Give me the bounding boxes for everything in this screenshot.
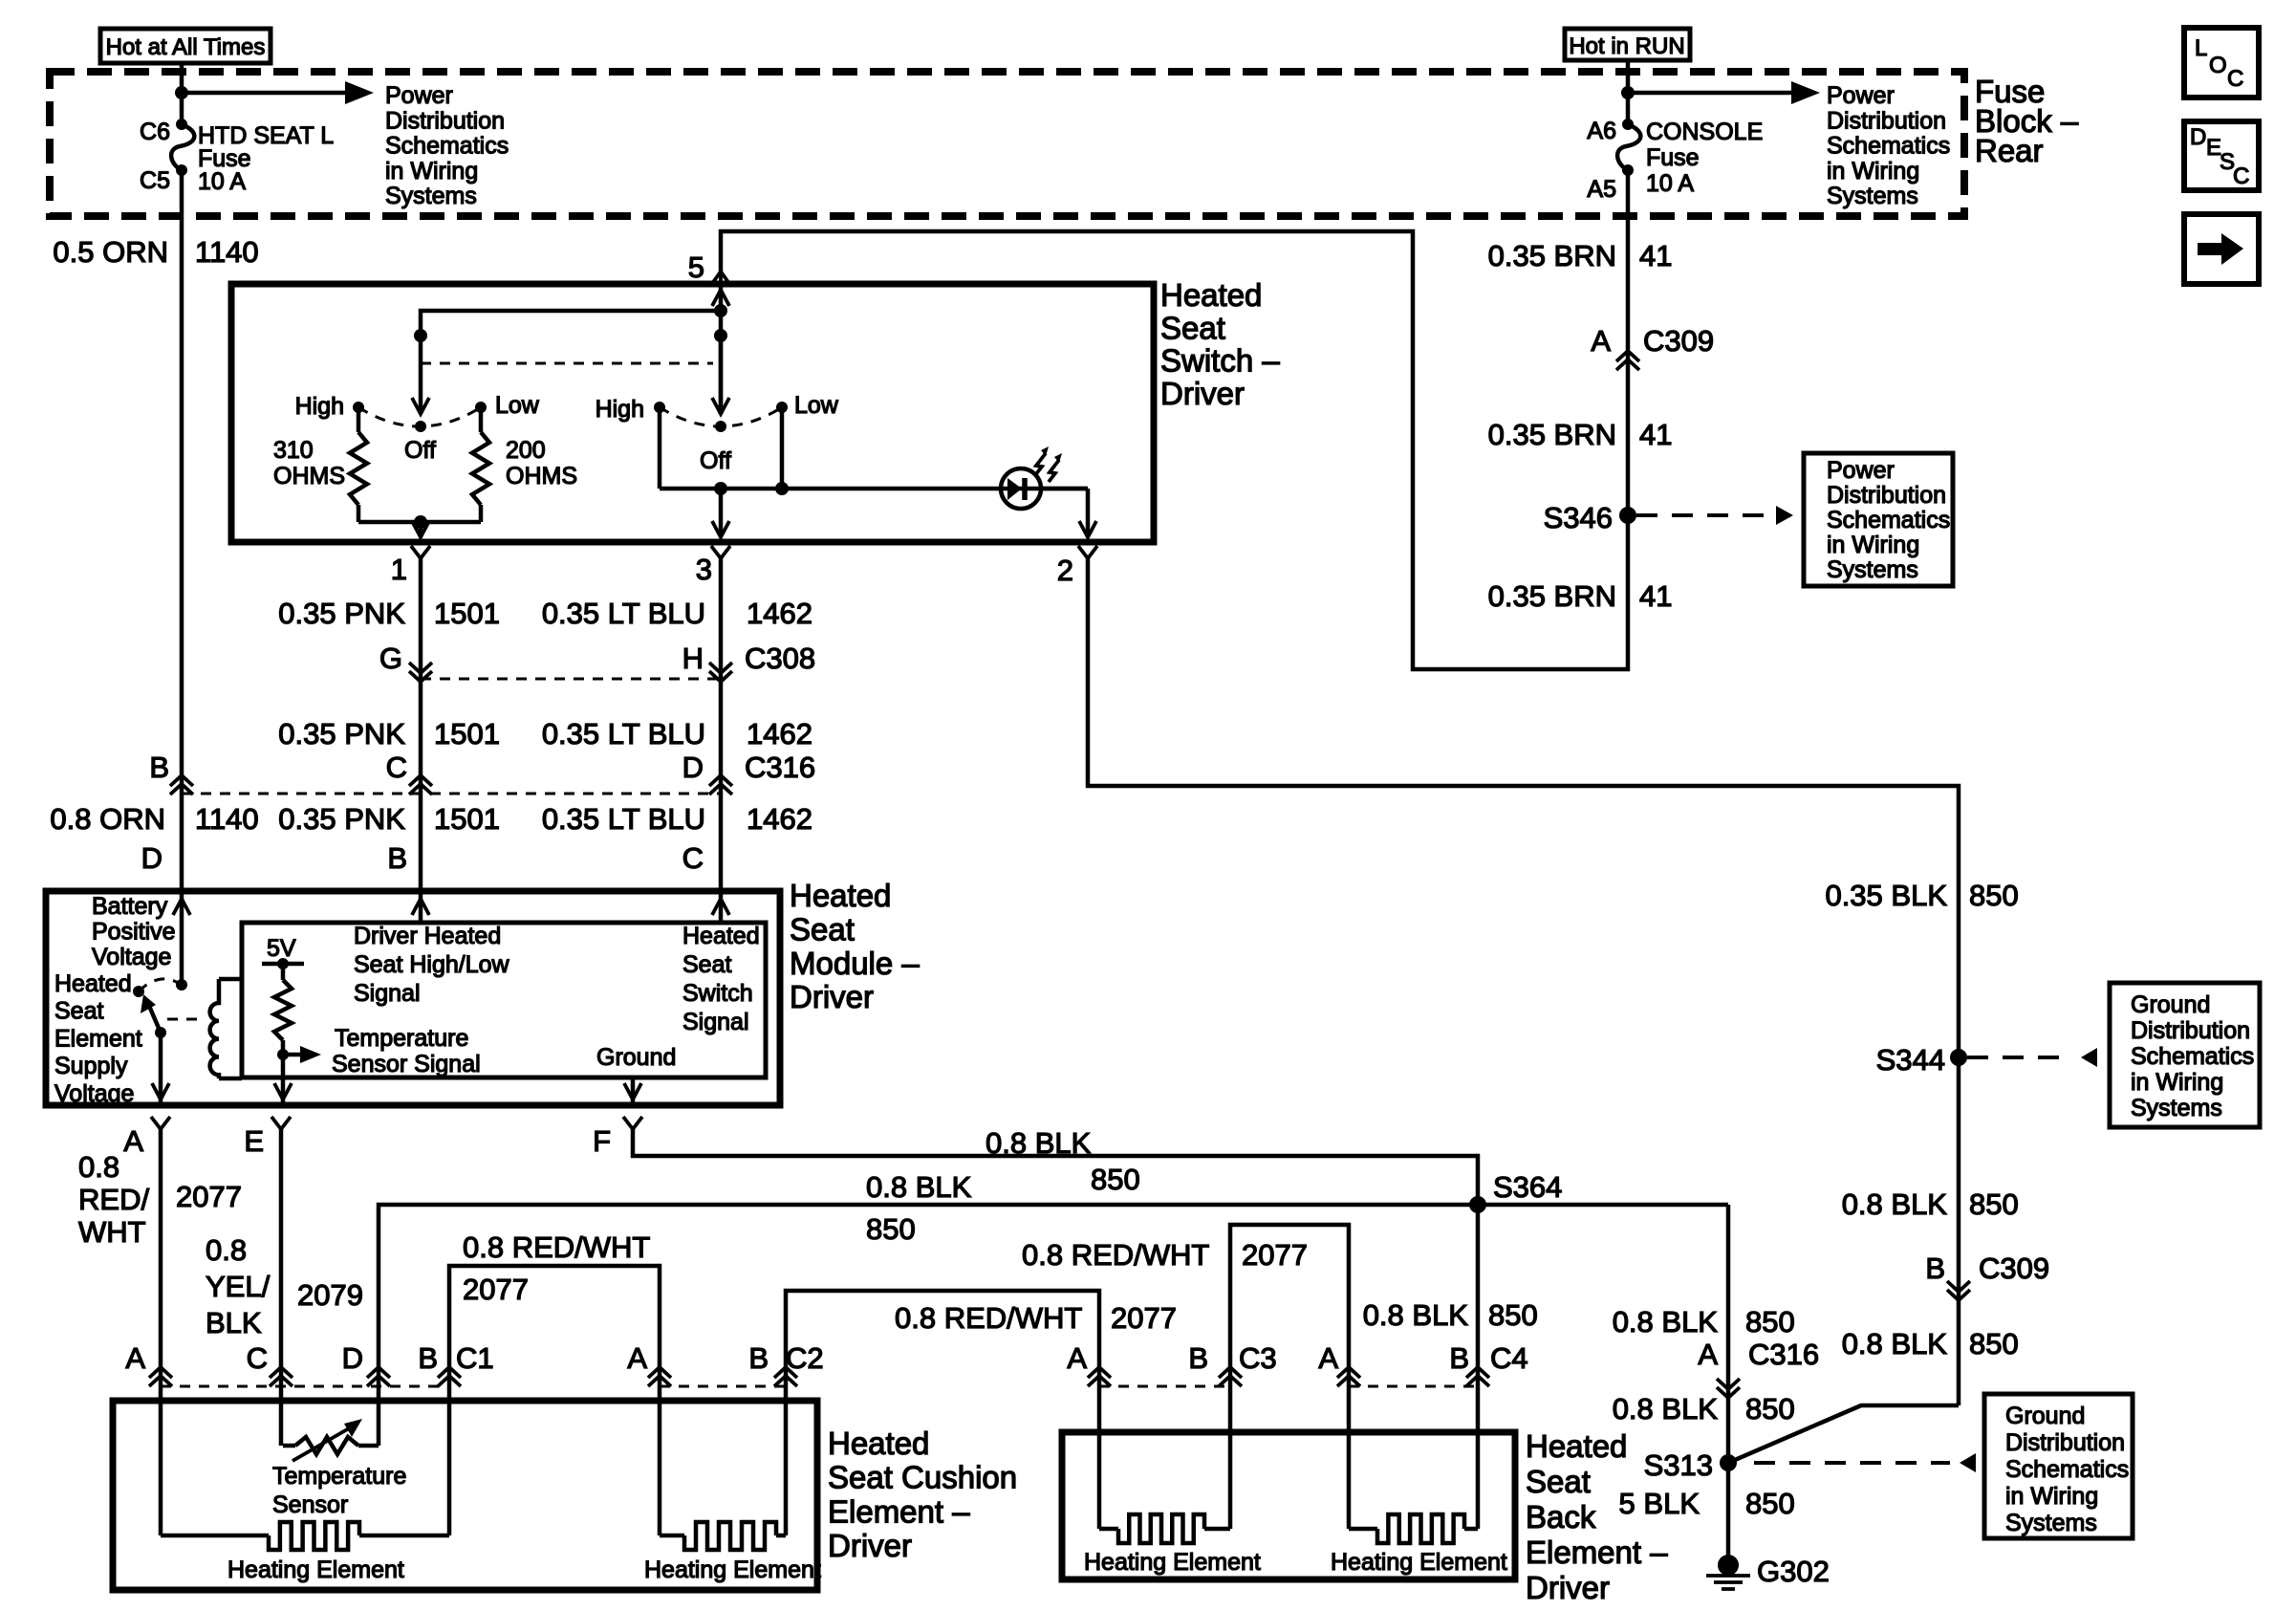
svg-text:Back: Back — [1526, 1499, 1596, 1535]
wire: 5 BLK 850 from S313 to ground G302 — [1726, 1463, 1731, 1558]
svg-text:Heating Element: Heating Element — [644, 1557, 821, 1583]
svg-text:Schematics: Schematics — [1827, 507, 1950, 533]
svg-text:C: C — [386, 751, 407, 784]
svg-text:Distribution: Distribution — [2131, 1017, 2250, 1044]
svg-text:Seat High/Low: Seat High/Low — [354, 951, 510, 978]
node S364: ground splice — [1469, 1196, 1486, 1213]
svg-text:10 A: 10 A — [198, 168, 246, 195]
svg-text:B: B — [418, 1341, 438, 1375]
node: Hot at All Times label box — [100, 29, 271, 63]
svg-text:41: 41 — [1639, 579, 1672, 613]
svg-text:D: D — [342, 1341, 363, 1375]
svg-text:3: 3 — [696, 553, 712, 586]
wire: 0.35 BLK 850 from switch pin 2 across to right ground wire — [1088, 558, 1959, 1057]
svg-text:A: A — [1318, 1341, 1338, 1375]
svg-text:2077: 2077 — [463, 1273, 529, 1306]
svg-text:Heating Element: Heating Element — [1331, 1549, 1507, 1576]
svg-text:2077: 2077 — [1111, 1301, 1177, 1335]
svg-text:Supply: Supply — [54, 1053, 128, 1079]
svg-text:Driver: Driver — [1160, 376, 1245, 411]
svg-text:0.35 LT BLU: 0.35 LT BLU — [542, 802, 705, 836]
wire: 0.8 BLK 850 from S344 to C309 pin B — [1957, 1057, 1961, 1405]
heating element 4 (back right) — [1347, 1432, 1352, 1529]
legend: forward arrow box — [2184, 214, 2259, 284]
svg-text:L: L — [2195, 35, 2207, 61]
svg-text:0.8 RED/WHT: 0.8 RED/WHT — [1022, 1238, 1209, 1272]
connector: switch pin 3 — [711, 546, 730, 558]
svg-text:0.8 BLK: 0.8 BLK — [1842, 1187, 1948, 1221]
svg-text:310: 310 — [273, 437, 314, 464]
svg-text:5: 5 — [688, 250, 704, 284]
dashed arc between relay contacts — [139, 979, 182, 991]
svg-text:0.35 BRN: 0.35 BRN — [1488, 239, 1616, 272]
node: right Low contact — [776, 402, 788, 413]
svg-text:Ground: Ground — [2005, 1403, 2085, 1429]
connector: switch pin 2 — [1078, 546, 1097, 558]
svg-text:1462: 1462 — [747, 717, 812, 751]
svg-text:2077: 2077 — [1242, 1238, 1308, 1272]
svg-text:Heating Element: Heating Element — [1084, 1549, 1261, 1576]
svg-text:BLK: BLK — [206, 1306, 262, 1339]
svg-text:B: B — [1449, 1341, 1469, 1375]
svg-text:0.35 LT BLU: 0.35 LT BLU — [542, 717, 705, 751]
svg-text:5 BLK: 5 BLK — [1619, 1487, 1700, 1520]
wire: dashed reference from S313 to Ground Distribution box — [1754, 1461, 1950, 1465]
svg-text:1: 1 — [391, 553, 407, 586]
svg-text:200: 200 — [506, 437, 546, 464]
LED indicator lamp — [1001, 468, 1041, 509]
svg-text:850: 850 — [1488, 1298, 1538, 1332]
svg-text:B: B — [748, 1341, 769, 1375]
svg-text:Ground: Ground — [596, 1044, 676, 1071]
node: right High contact — [654, 402, 665, 413]
svg-text:0.35 BRN: 0.35 BRN — [1488, 579, 1616, 613]
svg-text:0.8 ORN: 0.8 ORN — [50, 802, 165, 836]
node: temperature sensor signal tap — [277, 1049, 289, 1060]
svg-text:S364: S364 — [1493, 1170, 1562, 1204]
svg-text:C1: C1 — [456, 1341, 494, 1375]
svg-text:A: A — [1067, 1341, 1087, 1375]
wire: 0.35 BRN 41 from S346 down and across to switch pin 5 — [721, 231, 1628, 669]
module pin B internal arrow — [419, 891, 423, 923]
svg-text:850: 850 — [1745, 1487, 1795, 1520]
svg-text:in Wiring: in Wiring — [385, 158, 478, 185]
svg-text:Heating Element: Heating Element — [227, 1557, 404, 1583]
svg-text:0.35 PNK: 0.35 PNK — [278, 597, 405, 630]
wire: dashed arc left switch positions — [358, 407, 481, 426]
svg-text:Schematics: Schematics — [1827, 133, 1950, 160]
svg-text:Hot in RUN: Hot in RUN — [1569, 33, 1684, 59]
wire: 0.8 BLK 850 from S364 line down through C316 pin A — [1726, 1205, 1731, 1463]
svg-text:Heated: Heated — [790, 878, 891, 913]
svg-text:A6: A6 — [1587, 118, 1616, 144]
svg-text:Distribution: Distribution — [1827, 482, 1946, 509]
component: Heated Seat Cushion Element - Driver box — [113, 1401, 817, 1590]
node: Power Distribution Schematics reference box (S346) — [1804, 453, 1953, 586]
svg-text:C4: C4 — [1490, 1341, 1528, 1375]
svg-text:850: 850 — [866, 1212, 916, 1246]
node: relay blade pivot dot — [155, 1027, 166, 1038]
svg-text:Low: Low — [495, 392, 540, 419]
svg-text:in Wiring: in Wiring — [1827, 158, 1919, 185]
svg-text:in Wiring: in Wiring — [2131, 1069, 2223, 1096]
svg-text:B: B — [1188, 1341, 1208, 1375]
svg-text:in Wiring: in Wiring — [2005, 1483, 2098, 1510]
connector C316 pin C chevrons — [409, 775, 432, 786]
svg-text:Schematics: Schematics — [2005, 1456, 2129, 1483]
svg-text:Signal: Signal — [354, 980, 421, 1007]
node: junction dot left feed — [175, 86, 188, 99]
svg-text:0.35 BLK: 0.35 BLK — [1825, 879, 1947, 912]
wire: arrow to Power Distribution Schematics reference (left) — [182, 91, 357, 96]
svg-text:0.8: 0.8 — [206, 1233, 247, 1267]
wire: internal jumper to left switch arm — [421, 311, 721, 414]
svg-text:A: A — [627, 1341, 647, 1375]
wire: 0.35 BRN 41 from fuse A5 down to connector C309 pin A — [1626, 170, 1631, 515]
svg-text:10 A: 10 A — [1646, 170, 1694, 197]
fuse F2: CONSOLE Fuse 10 A — [1622, 119, 1634, 130]
svg-text:A5: A5 — [1587, 176, 1616, 203]
svg-text:C316: C316 — [1748, 1338, 1819, 1371]
svg-text:0.5 ORN: 0.5 ORN — [53, 235, 168, 269]
svg-text:G302: G302 — [1757, 1555, 1830, 1588]
svg-text:Off: Off — [404, 437, 436, 464]
svg-text:Ground: Ground — [2131, 991, 2210, 1018]
svg-text:Element –: Element – — [828, 1493, 970, 1529]
component: Heated Seat Module - Driver outer box — [46, 891, 780, 1105]
svg-text:H: H — [682, 642, 704, 675]
module inner control box — [242, 923, 766, 1078]
svg-text:Positive: Positive — [92, 919, 176, 946]
svg-text:0.8 BLK: 0.8 BLK — [1842, 1327, 1948, 1361]
wire: dashed reference from S344 to Ground Distribution box — [1967, 1056, 2072, 1059]
connector C309 pin A chevrons — [1616, 351, 1639, 361]
connector C316 pin D chevrons — [709, 775, 732, 786]
svg-text:Temperature: Temperature — [335, 1025, 468, 1052]
svg-text:B: B — [1925, 1252, 1945, 1285]
wire: 0.8 BLK 850 ground from pin F to S364 — [633, 1129, 1478, 1205]
node: Hot in RUN label box — [1565, 29, 1690, 60]
connector row C1: pins A C D B — [149, 1367, 172, 1378]
svg-text:1462: 1462 — [747, 597, 812, 630]
svg-text:S346: S346 — [1544, 501, 1613, 534]
svg-text:C2: C2 — [786, 1341, 824, 1375]
svg-text:0.8 BLK: 0.8 BLK — [1363, 1298, 1469, 1332]
svg-text:0.8 BLK: 0.8 BLK — [1613, 1305, 1719, 1339]
svg-text:Power: Power — [1827, 82, 1895, 109]
svg-text:1501: 1501 — [434, 717, 500, 751]
svg-text:850: 850 — [1969, 879, 2019, 912]
svg-text:Systems: Systems — [1827, 183, 1918, 209]
legend: DESC box — [2184, 121, 2259, 190]
svg-text:CONSOLE: CONSOLE — [1646, 119, 1763, 145]
svg-text:850: 850 — [1745, 1305, 1795, 1339]
svg-text:Heated: Heated — [828, 1426, 929, 1461]
heating element 3 (back left) — [1097, 1432, 1102, 1529]
svg-text:WHT: WHT — [78, 1215, 146, 1249]
svg-text:C: C — [2233, 163, 2249, 189]
svg-text:Systems: Systems — [1827, 556, 1918, 583]
svg-text:Schematics: Schematics — [2131, 1043, 2254, 1070]
svg-text:E: E — [244, 1124, 264, 1158]
connector C308 pin G chevrons — [409, 671, 432, 682]
svg-text:O: O — [2209, 53, 2227, 78]
svg-text:Heated: Heated — [54, 970, 132, 997]
svg-text:Systems: Systems — [2005, 1510, 2097, 1536]
svg-text:C3: C3 — [1239, 1341, 1277, 1375]
node: left Off contact — [415, 421, 426, 432]
svg-text:Heated: Heated — [1526, 1428, 1627, 1464]
svg-text:A: A — [125, 1341, 145, 1375]
connector row C3: pins A B — [1088, 1367, 1111, 1378]
svg-text:OHMS: OHMS — [273, 463, 345, 490]
svg-text:B: B — [149, 751, 169, 784]
svg-text:High: High — [295, 393, 344, 420]
svg-text:Switch: Switch — [682, 980, 753, 1007]
svg-text:0.8 BLK: 0.8 BLK — [866, 1170, 972, 1204]
wire: LED to pin 2 — [1041, 487, 1088, 491]
svg-text:Seat Cushion: Seat Cushion — [828, 1460, 1017, 1495]
svg-text:0.8: 0.8 — [78, 1150, 119, 1184]
svg-text:in Wiring: in Wiring — [1827, 532, 1919, 558]
svg-text:Driver: Driver — [1526, 1570, 1610, 1605]
svg-text:850: 850 — [1091, 1163, 1140, 1196]
heating element 1 (cushion left) — [159, 1401, 163, 1535]
svg-text:Temperature: Temperature — [272, 1463, 406, 1490]
svg-text:Schematics: Schematics — [385, 133, 509, 160]
svg-text:Systems: Systems — [2131, 1095, 2222, 1121]
ground G302 symbol — [1718, 1555, 1739, 1576]
svg-text:Seat: Seat — [790, 911, 855, 947]
svg-text:Seat: Seat — [682, 951, 731, 978]
connector row C2: pins A B — [648, 1367, 671, 1378]
svg-text:S313: S313 — [1644, 1448, 1713, 1482]
svg-text:YEL/: YEL/ — [206, 1270, 271, 1303]
svg-text:C308: C308 — [745, 642, 815, 675]
node S344: ground splice — [1950, 1049, 1967, 1066]
svg-text:D: D — [141, 841, 162, 875]
svg-text:A: A — [123, 1124, 143, 1158]
connector C308 pin H chevrons — [709, 671, 732, 682]
svg-text:A: A — [1698, 1338, 1718, 1371]
switch arm right: arrow to Off — [719, 336, 724, 414]
svg-text:Signal: Signal — [682, 1009, 749, 1035]
wire: resistor common join to pin 1 — [358, 520, 481, 525]
relay coil — [210, 979, 219, 1078]
svg-text:41: 41 — [1639, 418, 1672, 451]
wire: 0.8 BLK 850 from S364 down to C4-B — [1476, 1205, 1481, 1432]
fuse block - rear dashed boundary box — [50, 72, 1964, 216]
svg-text:850: 850 — [1745, 1392, 1795, 1426]
node: left High contact — [353, 402, 364, 413]
connector C316 dashed mating line — [182, 793, 721, 795]
component: Heated Seat Switch - Driver box — [231, 284, 1154, 542]
wire: module pin A from relay blade — [159, 1033, 163, 1105]
node S313: ground splice — [1720, 1454, 1737, 1471]
svg-text:Element: Element — [54, 1025, 142, 1052]
svg-text:2: 2 — [1057, 554, 1073, 587]
node: left Low contact — [475, 402, 487, 413]
node: relay contact (from pin D) — [176, 979, 187, 991]
wire: 0.8 RED/WHT 2077 link C1-B to C2-A — [449, 1266, 660, 1401]
svg-text:Rear: Rear — [1975, 133, 2044, 168]
svg-text:C: C — [682, 841, 704, 875]
svg-text:Distribution: Distribution — [1827, 107, 1946, 134]
svg-text:C: C — [247, 1341, 268, 1375]
svg-text:0.8 RED/WHT: 0.8 RED/WHT — [895, 1301, 1082, 1335]
node: Ground Distribution Schematics reference box (S313) — [1984, 1394, 2133, 1538]
svg-text:F: F — [593, 1124, 611, 1158]
svg-text:0.8 BLK: 0.8 BLK — [986, 1126, 1092, 1160]
resistor: temperature pull-up — [274, 980, 292, 1040]
wire: dashed reference from S346 to Power Distribution box — [1636, 513, 1776, 517]
wire: 0.8 BLK 850 branch line to C1 pin D and C316 pin A — [379, 1205, 1728, 1401]
svg-text:C316: C316 — [745, 751, 815, 784]
svg-text:Driver: Driver — [790, 979, 874, 1014]
svg-text:Seat: Seat — [1160, 310, 1225, 345]
svg-text:Fuse: Fuse — [1646, 144, 1700, 171]
wire: 0.8 RED/WHT 2077 link C3-B to C4-A — [1230, 1225, 1349, 1432]
svg-text:0.35 LT BLU: 0.35 LT BLU — [542, 597, 705, 630]
legend: LOC box — [2184, 28, 2259, 98]
svg-text:Power: Power — [385, 82, 453, 109]
svg-text:Distribution: Distribution — [385, 107, 505, 134]
svg-text:Systems: Systems — [385, 183, 477, 209]
svg-text:0.35 PNK: 0.35 PNK — [278, 802, 405, 836]
svg-text:Heated: Heated — [1160, 277, 1262, 313]
svg-text:Sensor Signal: Sensor Signal — [332, 1051, 481, 1078]
fuse F1: HTD SEAT L Fuse 10 A — [176, 119, 187, 130]
svg-text:Sensor: Sensor — [272, 1491, 348, 1518]
svg-text:2077: 2077 — [176, 1180, 242, 1213]
svg-text:Power: Power — [1827, 457, 1895, 484]
resistor 200 OHMS — [479, 407, 484, 432]
svg-text:Voltage: Voltage — [54, 1080, 134, 1107]
wire: module pin E drop — [281, 1055, 286, 1105]
svg-text:OHMS: OHMS — [506, 463, 577, 490]
svg-text:C309: C309 — [1979, 1252, 2049, 1285]
svg-text:5V: 5V — [267, 935, 296, 962]
node: relay common contact — [133, 986, 144, 997]
svg-text:C5: C5 — [140, 167, 170, 194]
svg-text:D: D — [2190, 124, 2206, 150]
module pin C internal arrow — [719, 891, 724, 923]
svg-text:1140: 1140 — [195, 802, 259, 836]
svg-text:41: 41 — [1639, 239, 1672, 272]
svg-text:0.35 BRN: 0.35 BRN — [1488, 418, 1616, 451]
connector C308 dashed mating line — [421, 678, 721, 681]
connector: switch pin 1 — [411, 546, 430, 558]
relay blade arrow — [149, 1006, 161, 1033]
svg-text:Voltage: Voltage — [92, 944, 171, 970]
svg-text:High: High — [596, 396, 644, 423]
svg-text:Hot at All Times: Hot at All Times — [106, 34, 266, 60]
module pin D internal: battery positive voltage feed — [180, 891, 184, 985]
svg-text:0.8 BLK: 0.8 BLK — [1613, 1392, 1719, 1426]
wire: 0.8 RED/WHT 2077 link C2-B to C3-A — [786, 1291, 1099, 1432]
svg-text:2079: 2079 — [297, 1278, 363, 1312]
svg-text:Element –: Element – — [1526, 1535, 1668, 1570]
svg-text:1140: 1140 — [195, 235, 259, 269]
wire: pin 5 internal feed with junction dots — [719, 284, 724, 414]
svg-text:Driver Heated: Driver Heated — [354, 923, 501, 949]
heating element 2 (cushion right) — [658, 1401, 662, 1535]
svg-text:Seat: Seat — [54, 998, 103, 1025]
svg-text:B: B — [387, 841, 407, 875]
temperature sensor (variable resistor) in cushion — [279, 1401, 284, 1446]
svg-text:Module –: Module – — [790, 946, 920, 981]
svg-text:RED/: RED/ — [78, 1183, 149, 1216]
svg-text:S344: S344 — [1876, 1043, 1945, 1077]
node: junction dot right feed — [1621, 86, 1635, 99]
svg-text:1501: 1501 — [434, 802, 500, 836]
wire: dashed arc right switch positions — [660, 407, 782, 426]
svg-text:Heated: Heated — [682, 923, 760, 949]
svg-text:850: 850 — [1969, 1327, 2019, 1361]
connector row C4: pins A B — [1337, 1367, 1360, 1378]
node: Ground Distribution Schematics reference box (S344) — [2110, 983, 2260, 1127]
wire: 0.5 ORN 1140 from fuse C5 down to module pin D — [180, 170, 184, 891]
svg-text:C: C — [2227, 66, 2243, 92]
svg-text:Driver: Driver — [828, 1528, 912, 1563]
wire: right switch common bus to LED — [658, 407, 662, 489]
wire: left feed from Hot at All Times into fuse block — [180, 63, 184, 124]
svg-text:Off: Off — [700, 447, 731, 474]
svg-text:0.35 PNK: 0.35 PNK — [278, 717, 405, 751]
node: right Off contact — [715, 421, 726, 432]
switch arm left: arrow to Off — [412, 398, 429, 414]
connector: module pin E — [271, 1117, 291, 1129]
svg-text:C309: C309 — [1643, 324, 1714, 358]
svg-text:C6: C6 — [140, 119, 170, 145]
connector: module pin A — [151, 1117, 170, 1129]
connector: module pin F — [623, 1117, 642, 1129]
wire: right feed from Hot in RUN into fuse block — [1626, 60, 1631, 124]
wire: arrow to Power Distribution Schematics reference (right) — [1628, 91, 1804, 96]
svg-text:1462: 1462 — [747, 802, 812, 836]
svg-text:Switch –: Switch – — [1160, 343, 1280, 379]
component: Heated Seat Back Element - Driver box — [1062, 1432, 1515, 1579]
svg-text:Seat: Seat — [1526, 1464, 1591, 1499]
svg-text:G: G — [379, 642, 402, 675]
svg-text:850: 850 — [1969, 1187, 2019, 1221]
svg-text:D: D — [682, 751, 704, 784]
svg-text:Distribution: Distribution — [2005, 1429, 2125, 1456]
svg-text:Battery: Battery — [92, 893, 168, 920]
svg-text:Low: Low — [794, 392, 839, 419]
wire: pin 3 drop — [719, 489, 724, 535]
svg-text:0.8 RED/WHT: 0.8 RED/WHT — [463, 1230, 650, 1264]
svg-text:1501: 1501 — [434, 597, 500, 630]
node S346: splice dot — [1619, 507, 1636, 524]
resistor 310 OHMS — [357, 407, 361, 432]
svg-text:A: A — [1591, 324, 1611, 358]
wire: dashed gang link between switch arms — [421, 362, 713, 365]
dashed link blade to relay coil — [167, 1018, 204, 1021]
